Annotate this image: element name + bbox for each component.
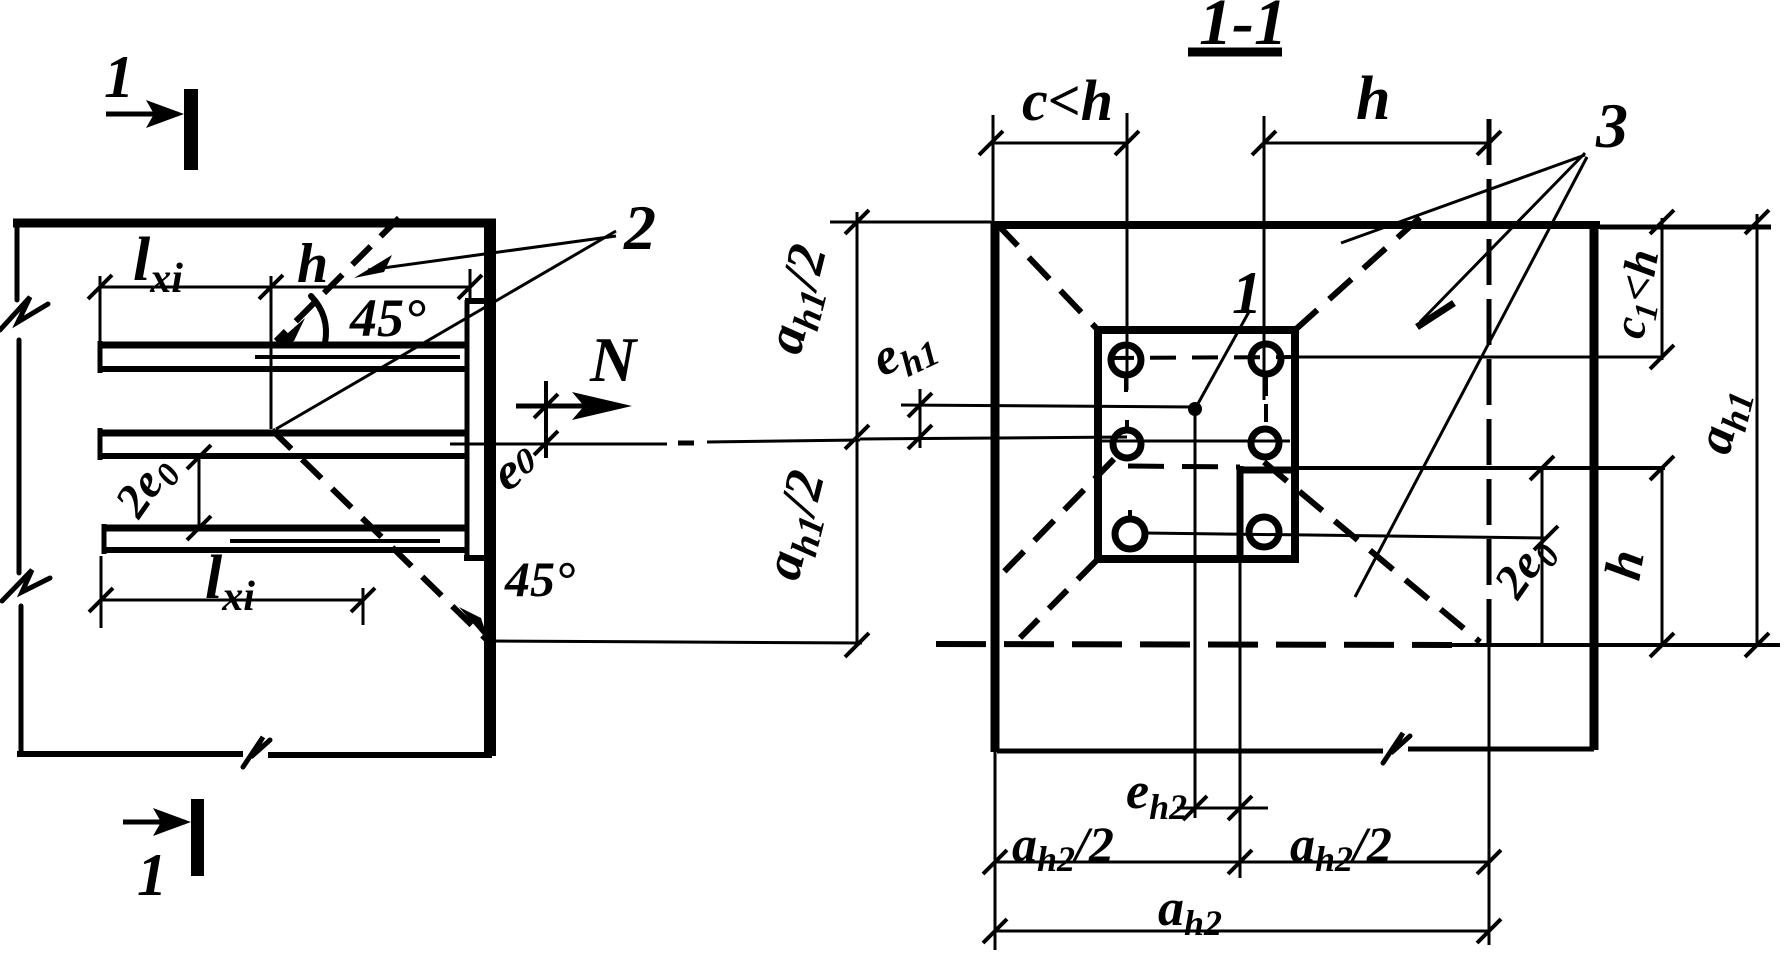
anchor rod 3 (bottom) <box>104 525 466 532</box>
svg-text:1: 1 <box>104 44 134 110</box>
center marks of holes <box>1126 374 1266 519</box>
bolt hole top-left <box>1111 345 1141 375</box>
dimension h (right side, rotated) <box>1661 468 1664 645</box>
anchor plate (side view) <box>465 300 470 560</box>
svg-text:c<h: c<h <box>1022 68 1113 133</box>
title underline <box>1188 48 1282 57</box>
dashed horizontal line y645 <box>936 644 1452 645</box>
svg-text:45°: 45° <box>504 551 575 607</box>
tick at 2e0 top <box>1530 456 1558 550</box>
concrete right edge / surface <box>484 219 496 756</box>
section mark 1 (top) <box>184 89 198 170</box>
solid continuation y645 to right <box>1452 643 1780 647</box>
angle arc 45 (upper) <box>311 296 326 343</box>
vertical dashed line x1489 <box>1487 119 1492 645</box>
arrowhead leader 2 <box>354 255 392 278</box>
dashed line y466 inside plate <box>1128 466 1240 467</box>
vertical extension x995 below face <box>994 752 997 950</box>
dimension c1<h (right side, rotated) <box>1661 218 1664 360</box>
dimension line lxi + h (top) <box>100 286 470 289</box>
dashed 45-degree line (upper) <box>276 218 399 341</box>
horizontal line y437 (ehl lower / axis extension) <box>860 437 1127 439</box>
break mark left edge upper <box>0 297 48 330</box>
dashed 45-degree line (lower) <box>272 430 488 641</box>
cone dashed diagonal mid-left <box>996 459 1114 580</box>
break mark bottom edge right view <box>1383 733 1410 763</box>
bolt hole bottom-right <box>1249 517 1279 547</box>
bolt hole top-right <box>1251 344 1281 374</box>
horizontal line y405 (ehl upper) <box>901 405 1195 407</box>
left dimension line a_h1/2 <box>856 212 859 645</box>
break mark bottom edge <box>243 737 270 767</box>
svg-text:3: 3 <box>1595 90 1628 161</box>
arrowhead at 45 vertex <box>272 318 305 347</box>
dimension line lxi (bottom) <box>101 599 363 602</box>
e_h2 dimension (bottom) <box>1177 807 1268 810</box>
dashed row line through top holes <box>1108 357 1299 358</box>
vertical extension x1489 below <box>1488 645 1491 945</box>
cone dashed diagonal top-right <box>1295 213 1425 330</box>
dimension line a_h2 (bottom) <box>995 930 1489 933</box>
dimension line a_h2/2 (bottom) <box>995 861 1489 864</box>
e0 dimension <box>544 381 548 458</box>
bolt hole mid-left <box>1113 430 1141 458</box>
cone dashed diagonal bottom-right <box>1264 462 1480 642</box>
cone dashed diagonal bottom-left <box>1010 561 1096 648</box>
cone dashed diagonal top-left <box>997 224 1098 330</box>
extension line of row y357 to c1 dimension <box>1299 356 1662 359</box>
thick dash at leader 3 end <box>1417 303 1454 327</box>
leader lines to label 3 <box>1341 153 1587 597</box>
dimension c<h (top) <box>991 142 1127 145</box>
bolt hole bottom-left <box>1115 519 1145 549</box>
anchor rod 1 (top) <box>100 342 466 349</box>
svg-text:45°: 45° <box>349 288 426 348</box>
vertical extension x1240 below plate <box>1239 559 1242 878</box>
center vertical from plate dot <box>1194 413 1197 818</box>
arrowhead at lower 45 line end <box>459 607 489 642</box>
concrete face right edge <box>1590 221 1599 750</box>
force N arrow <box>516 404 600 409</box>
svg-text:h: h <box>297 233 328 295</box>
leader lines to label 2 <box>276 231 616 429</box>
section mark 1 (bottom) <box>191 799 204 876</box>
concrete face left edge <box>991 221 1000 752</box>
dimension a_h1 (far right, rotated) <box>1756 214 1759 645</box>
axis center line (between views) <box>450 440 860 444</box>
axis row line through middle holes <box>1095 440 1290 443</box>
anchor plate outline (section) <box>1098 330 1295 559</box>
center dot on plate <box>1188 402 1202 416</box>
svg-text:N: N <box>589 324 639 395</box>
svg-text:1: 1 <box>137 842 167 908</box>
leader line to label 1 <box>1195 310 1250 409</box>
break mark left edge lower <box>2 570 50 601</box>
concrete face top edge <box>991 221 1600 229</box>
concrete face bottom edge (with break mark) <box>997 749 1594 751</box>
concrete left edge (with break marks) <box>17 221 21 754</box>
bolt hole mid-right <box>1251 429 1279 457</box>
line y468 from plate to h dimension <box>1295 466 1665 470</box>
dimension h (top) <box>1264 142 1489 145</box>
concrete bottom edge (with break mark) <box>17 754 492 755</box>
2e0 dimension line (right view) <box>1541 470 1544 645</box>
concrete top edge <box>13 219 496 228</box>
tick marks top dimension <box>88 275 482 299</box>
thin surface line to right view (y 645) <box>491 641 862 643</box>
inner corner lines of small plate <box>1237 466 1295 559</box>
e_h1 dimension <box>919 389 922 448</box>
anchor rod 2 (middle) <box>100 430 466 437</box>
svg-text:h: h <box>1356 65 1390 133</box>
svg-text:2: 2 <box>623 192 656 263</box>
svg-text:1: 1 <box>1232 260 1262 326</box>
2e0 dimension (left view) <box>198 457 201 528</box>
row line through bottom holes to 2e0 dim <box>1145 533 1546 538</box>
